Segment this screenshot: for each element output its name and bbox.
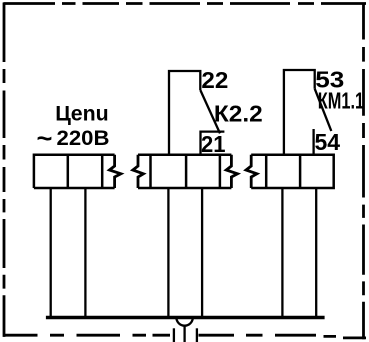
wire: left cable line [173,328,175,342]
wire 6 [315,188,317,316]
pin number 53 [315,68,344,93]
wire 1 [50,188,52,316]
svg-text:21: 21 [201,132,226,158]
svg-text:Цenu: Цenu [55,101,108,125]
designator KM1.1 [318,89,364,114]
wire 5 [281,188,283,316]
svg-text:КМ1.1: КМ1.1 [318,89,364,114]
svg-text:22: 22 [201,69,228,94]
cable exit wires through bottom boundary [174,326,197,342]
contact K2.2 (NC contact, relay K2) [169,71,224,155]
bottom side dashes [4,335,367,338]
top side dashes [4,2,367,5]
svg-text:220В: 220В [57,125,110,150]
label "220В" [57,125,110,150]
wire 3 [167,188,169,316]
cable loop (semicircle) under bus bar [176,318,192,326]
svg-text:~: ~ [36,123,52,152]
terminal block XT (left section) [34,155,121,188]
moving blade of KM1.1 [315,89,332,131]
moving blade of K2.2 [200,90,220,133]
svg-text:К2.2: К2.2 [214,102,263,127]
wire 2 [84,188,86,316]
pin number 54 [315,129,341,155]
pin number 22 [201,69,228,94]
wire: lead of pin 21 with stop tick [201,132,225,155]
break squiggle on left edge of middle block [133,155,144,188]
wire: lead of pin 54 [312,129,314,155]
wire 4 [201,188,203,316]
wire: lead of pin 53 up from terminal block [284,70,315,155]
bus bar (common collecting bar) [46,316,325,319]
contact KM1.1 (NO contact, contactor KM1) [284,70,331,155]
wire: lead of pin 22 up from terminal block [169,71,200,155]
right side dashes [362,3,365,340]
wire: right cable line [196,328,198,342]
break squiggle on right edge of middle block [226,155,237,188]
break squiggle on left edge of right block [246,155,257,188]
label "~ 220В" tilde [36,123,52,152]
designator K2.2 [214,102,263,127]
wires from terminal blocks down to bus bar [51,188,317,316]
terminal block XT (middle section) [133,155,238,188]
terminal block XT (right section) [246,155,334,188]
break squiggle on right edge of left block [109,155,121,188]
wire: centre cable line [183,326,185,342]
label "Цепи" [55,101,108,125]
svg-text:54: 54 [315,129,341,155]
pin number 21 [201,132,226,158]
left side dashes [3,3,6,337]
